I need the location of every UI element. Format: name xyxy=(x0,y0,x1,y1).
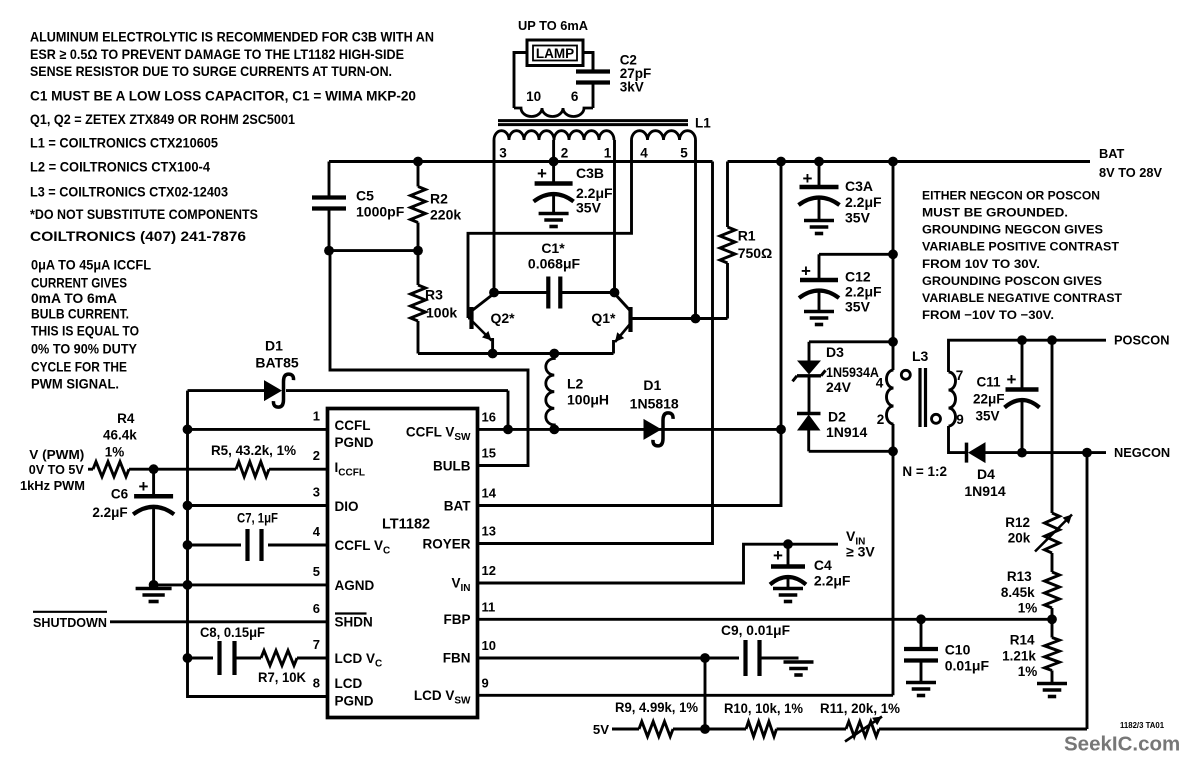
svg-text:+: + xyxy=(801,262,811,281)
svg-text:15: 15 xyxy=(482,446,496,461)
svg-text:0μA TO 45μA ICCFL: 0μA TO 45μA ICCFL xyxy=(31,257,151,272)
svg-text:3kV: 3kV xyxy=(620,80,644,95)
svg-text:SHUTDOWN: SHUTDOWN xyxy=(33,615,107,630)
svg-text:35V: 35V xyxy=(845,209,871,225)
svg-text:R1: R1 xyxy=(738,227,756,243)
diode D4 1N914 xyxy=(968,442,986,463)
junction: column/pin1 xyxy=(183,425,193,435)
svg-text:20k: 20k xyxy=(1008,531,1031,546)
wire: L3 secondary bottom to NEGCON xyxy=(949,426,967,453)
svg-text:CYCLE FOR THE: CYCLE FOR THE xyxy=(31,359,127,374)
svg-text:D3: D3 xyxy=(826,344,844,360)
capacitor C3A xyxy=(818,162,821,188)
wire: FBN riser xyxy=(704,658,707,729)
junction: FBP / R13 / R14 node xyxy=(1047,614,1057,624)
resistor R2 xyxy=(417,162,420,187)
svg-text:C1*: C1* xyxy=(541,240,565,256)
svg-text:46.4k: 46.4k xyxy=(103,427,137,442)
junction: C10 top on FBP xyxy=(916,614,926,624)
svg-text:VARIABLE NEGATIVE CONTRAST: VARIABLE NEGATIVE CONTRAST xyxy=(922,291,1122,305)
junction: C3A on BAT bus xyxy=(814,157,824,167)
inductor L1 primary winding (pins 3-2-1) xyxy=(494,131,614,140)
wire: pin1 CCFL PGND lead xyxy=(188,428,328,431)
junction: FBN riser top xyxy=(700,653,710,663)
wire: VIN pin12 lead xyxy=(478,544,839,583)
svg-text:R2: R2 xyxy=(430,190,448,206)
svg-text:L3: L3 xyxy=(912,348,929,364)
transistor Q1 xyxy=(628,307,632,332)
svg-text:PWM SIGNAL.: PWM SIGNAL. xyxy=(31,377,119,392)
wire: D1 cathode riser / BAT pin corner xyxy=(478,162,782,506)
svg-text:FBP: FBP xyxy=(444,612,471,627)
svg-text:BULB: BULB xyxy=(433,459,471,474)
svg-text:L1: L1 xyxy=(695,116,711,131)
junction: D3 top / riser xyxy=(888,337,898,347)
svg-text:*DO NOT SUBSTITUTE COMPONENTS: *DO NOT SUBSTITUTE COMPONENTS xyxy=(30,207,258,222)
svg-text:VARIABLE POSITIVE CONTRAST: VARIABLE POSITIVE CONTRAST xyxy=(922,240,1119,254)
wire: BULB feedback path xyxy=(329,251,528,466)
svg-text:1%: 1% xyxy=(1018,600,1038,615)
svg-text:1: 1 xyxy=(604,145,612,160)
svg-text:L1 = COILTRONICS CTX210605: L1 = COILTRONICS CTX210605 xyxy=(30,136,218,151)
svg-text:4: 4 xyxy=(876,376,884,391)
wire: L3 riser to LCD VSW xyxy=(892,424,895,695)
svg-text:THIS IS EQUAL TO: THIS IS EQUAL TO xyxy=(31,324,139,339)
svg-text:C7, 1μF: C7, 1μF xyxy=(237,509,278,525)
svg-text:BAT: BAT xyxy=(1099,146,1125,161)
svg-text:V (PWM): V (PWM) xyxy=(29,447,84,462)
svg-text:5: 5 xyxy=(680,145,688,160)
svg-text:C9, 0.01μF: C9, 0.01μF xyxy=(721,622,790,638)
svg-text:14: 14 xyxy=(482,486,497,501)
svg-text:9: 9 xyxy=(956,412,964,427)
ground at C10 xyxy=(906,681,936,685)
junction: D2 bottom / riser xyxy=(888,446,898,456)
ground at R14 xyxy=(1037,682,1067,686)
wire: L1 pin3 drop to Q2 collector xyxy=(493,140,496,293)
wire: FBP line pin11 xyxy=(478,618,1053,621)
svg-text:1kHz PWM: 1kHz PWM xyxy=(20,478,85,493)
svg-text:2.2μF: 2.2μF xyxy=(845,284,882,300)
svg-text:220k: 220k xyxy=(430,206,461,222)
svg-text:100μH: 100μH xyxy=(567,391,609,407)
wire: Q1 base line xyxy=(633,317,728,320)
capacitor C9 xyxy=(743,640,747,676)
capacitor C11 xyxy=(1021,340,1024,389)
svg-text:L3 = COILTRONICS CTX02-12403: L3 = COILTRONICS CTX02-12403 xyxy=(30,185,228,200)
svg-text:R14: R14 xyxy=(1010,633,1035,648)
svg-text:R5, 43.2k, 1%: R5, 43.2k, 1% xyxy=(211,442,297,458)
svg-text:6: 6 xyxy=(313,601,320,616)
svg-text:Q1*: Q1* xyxy=(591,310,616,326)
wire: ROYER riser (bus corner down to pin 13) xyxy=(478,162,713,544)
wire: FBN line pin10 xyxy=(478,657,740,660)
wire: R9/R10/R11 bias line xyxy=(612,728,639,731)
svg-text:10: 10 xyxy=(526,89,541,104)
svg-text:UP TO 6mA: UP TO 6mA xyxy=(518,18,589,33)
resistor R14 xyxy=(1051,619,1054,637)
svg-text:2: 2 xyxy=(313,448,320,463)
wire: BAT85 riser to VSW line xyxy=(507,391,510,430)
junction: R12 top on POSCON xyxy=(1047,335,1057,345)
svg-text:4: 4 xyxy=(640,145,648,160)
wire: BAT bus (R1 to BAT terminal) xyxy=(728,160,1091,163)
svg-text:SENSE RESISTOR DUE TO SURGE CU: SENSE RESISTOR DUE TO SURGE CURRENTS AT … xyxy=(30,64,392,79)
svg-text:2.2μF: 2.2μF xyxy=(845,194,882,210)
wire: L1 pin4 to Q2 base xyxy=(468,140,632,318)
capacitor C2 xyxy=(592,53,595,72)
svg-text:6: 6 xyxy=(571,89,579,104)
svg-text:1N914: 1N914 xyxy=(964,483,1005,499)
wire: lamp right lead to C2 xyxy=(583,53,593,72)
resistor R9 xyxy=(639,722,673,737)
wire: L3 secondary top to POSCON xyxy=(949,340,1107,372)
capacitor C5 xyxy=(328,162,331,198)
svg-text:2: 2 xyxy=(561,145,569,160)
diode D1 BAT85 xyxy=(188,389,265,392)
svg-text:13: 13 xyxy=(482,524,496,539)
svg-text:N = 1:2: N = 1:2 xyxy=(902,464,947,479)
svg-text:DIO: DIO xyxy=(335,499,359,514)
svg-text:22μF: 22μF xyxy=(973,392,1005,407)
svg-text:5V: 5V xyxy=(593,722,609,737)
junction: L2 bottom on VSW line xyxy=(549,425,559,435)
svg-text:+: + xyxy=(803,169,813,188)
svg-text:11: 11 xyxy=(482,599,496,614)
svg-text:5: 5 xyxy=(313,564,320,579)
svg-text:R7, 10K: R7, 10K xyxy=(258,669,306,685)
svg-text:GROUNDING NEGCON GIVES: GROUNDING NEGCON GIVES xyxy=(922,223,1103,237)
svg-text:C5: C5 xyxy=(356,188,374,204)
svg-text:FBN: FBN xyxy=(443,651,471,666)
svg-text:1N5934A: 1N5934A xyxy=(826,364,879,380)
svg-text:D1: D1 xyxy=(643,377,661,393)
ground at C12 xyxy=(804,310,834,314)
svg-text:35V: 35V xyxy=(576,200,602,216)
resistor R3 xyxy=(417,251,420,285)
svg-text:+: + xyxy=(1007,370,1017,389)
junction: R9/R10/FBN node xyxy=(700,724,710,734)
svg-text:LT1182: LT1182 xyxy=(382,517,430,533)
svg-text:1000pF: 1000pF xyxy=(356,204,405,220)
diode D3 1N5934A (zener) xyxy=(808,342,811,361)
svg-text:L2 = COILTRONICS CTX100-4: L2 = COILTRONICS CTX100-4 xyxy=(30,159,210,174)
wire: D3 top lead xyxy=(809,340,893,343)
svg-text:D4: D4 xyxy=(977,466,995,482)
svg-text:3: 3 xyxy=(499,145,507,160)
svg-text:3: 3 xyxy=(313,485,320,500)
svg-text:C4: C4 xyxy=(814,557,832,573)
svg-text:CCFL: CCFL xyxy=(335,418,371,433)
wire: L1 pin2 center tap drop xyxy=(552,140,555,162)
junction: column/pin7 xyxy=(183,653,193,663)
svg-text:+: + xyxy=(773,546,783,565)
ground at C3A xyxy=(804,219,834,223)
svg-text:Q1, Q2 = ZETEX ZTX849 OR ROHM: Q1, Q2 = ZETEX ZTX849 OR ROHM 2SC5001 xyxy=(30,112,295,127)
capacitor C1 xyxy=(494,291,548,294)
wire: LCD VSW line pin9 xyxy=(478,694,894,697)
wire: L1 pin1 drop to Q1 collector xyxy=(613,140,616,293)
svg-text:BULB CURRENT.: BULB CURRENT. xyxy=(31,307,129,322)
resistor R13 xyxy=(1045,572,1060,608)
svg-text:MUST BE GROUNDED.: MUST BE GROUNDED. xyxy=(922,206,1068,220)
svg-text:ESR ≥ 0.5Ω TO PREVENT DAMAGE T: ESR ≥ 0.5Ω TO PREVENT DAMAGE TO THE LT11… xyxy=(30,47,404,62)
svg-text:16: 16 xyxy=(482,409,496,424)
svg-text:2.2μF: 2.2μF xyxy=(92,505,127,520)
wire: C12 tap lead xyxy=(819,253,893,256)
resistor R1 xyxy=(726,162,729,228)
junction: NEGCON riser top xyxy=(1082,448,1092,458)
svg-text:R10, 10k, 1%: R10, 10k, 1% xyxy=(724,701,803,716)
junction: BAT85 riser on VSW line xyxy=(503,425,513,435)
inductor L3 primary xyxy=(887,370,894,424)
svg-text:2.2μF: 2.2μF xyxy=(814,573,851,589)
junction: center tap on royer bus xyxy=(549,157,559,167)
svg-text:LAMP: LAMP xyxy=(536,46,574,61)
svg-text:1182/3 TA01: 1182/3 TA01 xyxy=(1120,721,1165,730)
svg-text:8V TO 28V: 8V TO 28V xyxy=(1099,165,1163,180)
junction: R2/R3 node xyxy=(413,246,423,256)
junction: C11 top xyxy=(1017,335,1027,345)
junction: D1 cathode meets riser xyxy=(776,425,786,435)
svg-text:BAT: BAT xyxy=(444,499,471,514)
junction: C6 bottom / AGND xyxy=(149,580,159,590)
svg-text:PGND: PGND xyxy=(335,694,374,709)
wire: lamp left lead xyxy=(514,53,527,109)
svg-text:EITHER NEGCON OR POSCON: EITHER NEGCON OR POSCON xyxy=(922,188,1100,202)
wire: NEGCON riser (R11 line up to NEGCON) xyxy=(1086,453,1089,729)
svg-text:ALUMINUM ELECTROLYTIC IS RECOM: ALUMINUM ELECTROLYTIC IS RECOMMENDED FOR… xyxy=(30,30,434,45)
capacitor C12 xyxy=(818,254,821,280)
svg-text:1.21k: 1.21k xyxy=(1002,649,1036,664)
svg-text:8.45k: 8.45k xyxy=(1001,585,1035,600)
capacitor C10 xyxy=(920,619,923,649)
svg-text:100k: 100k xyxy=(426,305,457,321)
svg-text:C3B: C3B xyxy=(576,165,604,181)
svg-text:PGND: PGND xyxy=(335,435,374,450)
inductor L1 secondary winding (pins 10-6) xyxy=(514,108,593,117)
transformer L3 core xyxy=(918,368,921,427)
junction: C1 right / Q1 collector xyxy=(610,288,620,298)
svg-text:L2: L2 xyxy=(567,376,584,392)
svg-text:R4: R4 xyxy=(117,411,135,426)
svg-text:7: 7 xyxy=(956,368,964,383)
svg-text:+: + xyxy=(139,477,149,496)
svg-text:POSCON: POSCON xyxy=(1114,333,1169,348)
ground at C9 xyxy=(784,660,814,664)
junction: C12 tap xyxy=(888,249,898,259)
op-amp U1 LT1182 box xyxy=(328,409,478,718)
svg-text:D2: D2 xyxy=(828,409,846,425)
svg-text:C10: C10 xyxy=(945,642,971,658)
transformer L1 core xyxy=(498,119,688,122)
junction: C11 bottom xyxy=(1017,448,1027,458)
junction: Q2 emitter on rail xyxy=(488,349,498,359)
svg-text:2.2μF: 2.2μF xyxy=(576,185,613,201)
svg-text:0.068μF: 0.068μF xyxy=(528,255,581,271)
svg-text:C6: C6 xyxy=(111,487,129,502)
svg-text:35V: 35V xyxy=(845,299,871,315)
svg-text:0.01μF: 0.01μF xyxy=(945,657,990,673)
wire: BAT riser (bus to L3 primary top) xyxy=(892,162,895,371)
svg-text:1N5818: 1N5818 xyxy=(630,396,679,412)
svg-text:≥ 3V: ≥ 3V xyxy=(846,544,875,560)
svg-text:1%: 1% xyxy=(105,444,125,459)
svg-text:ROYER: ROYER xyxy=(422,537,470,552)
svg-text:0mA TO 6mA: 0mA TO 6mA xyxy=(31,291,117,306)
svg-text:SHDN: SHDN xyxy=(335,614,373,629)
junction: D1 cathode riser top xyxy=(776,157,786,167)
resistor R11 (pot 20k) xyxy=(846,722,879,737)
capacitor C3B xyxy=(552,162,555,184)
svg-text:750Ω: 750Ω xyxy=(738,245,773,261)
svg-text:R9, 4.99k, 1%: R9, 4.99k, 1% xyxy=(615,700,698,715)
svg-text:+: + xyxy=(537,164,547,183)
resistor R4 xyxy=(88,468,93,471)
svg-text:GROUNDING POSCON GIVES: GROUNDING POSCON GIVES xyxy=(922,274,1102,288)
wire: C5 bottom to R2/R3 junction xyxy=(329,249,418,252)
ground at C3B xyxy=(539,212,569,216)
svg-text:LCD: LCD xyxy=(335,676,363,691)
svg-text:24V: 24V xyxy=(826,379,852,395)
svg-text:C3A: C3A xyxy=(845,178,873,194)
svg-text:SeekIC.com: SeekIC.com xyxy=(1064,733,1180,756)
capacitor C7 xyxy=(188,544,242,547)
junction: R2 top on bus xyxy=(413,157,423,167)
resistor R7 xyxy=(235,657,262,660)
junction: C5 bottom xyxy=(324,246,334,256)
svg-text:R3: R3 xyxy=(425,287,443,303)
junction: column/AGND xyxy=(183,580,193,590)
lamp LP1 (LAMP box) xyxy=(527,40,583,66)
inductor L1 feedback winding (pins 4-5) xyxy=(632,131,696,140)
resistor R10 xyxy=(746,722,777,737)
svg-text:C1 MUST BE A LOW LOSS CAPACITO: C1 MUST BE A LOW LOSS CAPACITOR, C1 = WI… xyxy=(30,88,416,103)
svg-text:NEGCON: NEGCON xyxy=(1114,445,1170,460)
wire: left ground column xyxy=(186,391,189,658)
svg-text:C12: C12 xyxy=(845,268,871,284)
diode D1 1N5818 xyxy=(644,419,662,440)
svg-text:R12: R12 xyxy=(1005,515,1030,530)
svg-text:1: 1 xyxy=(313,408,320,423)
svg-text:1%: 1% xyxy=(1018,664,1038,679)
svg-text:2: 2 xyxy=(877,412,885,427)
svg-text:R13: R13 xyxy=(1007,569,1032,584)
svg-text:4: 4 xyxy=(313,524,321,539)
svg-text:C8, 0.15μF: C8, 0.15μF xyxy=(200,624,265,640)
svg-text:FROM −10V TO −30V.: FROM −10V TO −30V. xyxy=(922,308,1054,322)
wire: CCFL VSW line (pin16 to D1 cathode riser) xyxy=(478,428,782,431)
ground at C4 xyxy=(773,587,803,591)
wire: royer bus (C5 to ROYER riser) xyxy=(329,160,713,163)
svg-text:0% TO 90% DUTY: 0% TO 90% DUTY xyxy=(31,342,137,357)
svg-text:1N914: 1N914 xyxy=(826,424,867,440)
svg-text:C11: C11 xyxy=(977,375,1002,390)
junction: C1 left / Q2 collector xyxy=(489,288,499,298)
junction: R4/R5/C6 node xyxy=(149,464,159,474)
svg-text:8: 8 xyxy=(313,676,320,691)
svg-text:35V: 35V xyxy=(976,409,1000,424)
resistor R5 xyxy=(154,468,236,471)
junction: L2 top on rail xyxy=(549,349,559,359)
wire: D2 bottom lead xyxy=(809,450,893,453)
svg-text:Q2*: Q2* xyxy=(490,310,515,326)
svg-text:D1: D1 xyxy=(265,338,283,354)
junction: BAT bus / L3 riser xyxy=(888,157,898,167)
svg-text:COILTRONICS (407) 241-7876: COILTRONICS (407) 241-7876 xyxy=(30,229,246,244)
resistor R12 (pot 20k) xyxy=(1051,340,1054,513)
svg-text:9: 9 xyxy=(482,675,489,690)
junction: C4 top xyxy=(783,539,793,549)
svg-text:R11, 20k, 1%: R11, 20k, 1% xyxy=(820,701,900,716)
wire: AGND lead pin5 xyxy=(154,583,328,586)
wire: L1 pin5 drop to Q1 base line xyxy=(694,140,697,319)
svg-text:BAT85: BAT85 xyxy=(255,355,299,371)
svg-text:7: 7 xyxy=(313,637,320,652)
svg-text:FROM 10V TO 30V.: FROM 10V TO 30V. xyxy=(922,257,1040,271)
junction: column/pin4 xyxy=(183,540,193,550)
svg-text:AGND: AGND xyxy=(335,578,375,593)
svg-text:0V TO 5V: 0V TO 5V xyxy=(29,462,84,477)
svg-text:CURRENT GIVES: CURRENT GIVES xyxy=(31,276,127,291)
junction: column/pin3 xyxy=(183,501,193,511)
capacitor C8 xyxy=(188,657,214,660)
diode D2 1N914 xyxy=(797,412,821,415)
ground at C6/AGND xyxy=(136,587,172,591)
svg-text:10: 10 xyxy=(482,638,496,653)
inductor L2 xyxy=(546,354,554,430)
junction: L1 pin5 / Q1 base xyxy=(691,314,701,324)
inductor L3 secondary xyxy=(949,372,956,426)
capacitor C4 xyxy=(787,544,790,566)
transistor Q2 xyxy=(469,307,473,329)
capacitor C6 xyxy=(152,469,155,496)
wire: emitter rail xyxy=(418,352,614,355)
svg-text:12: 12 xyxy=(482,563,496,578)
wire: pin3 DIO lead xyxy=(188,504,328,507)
